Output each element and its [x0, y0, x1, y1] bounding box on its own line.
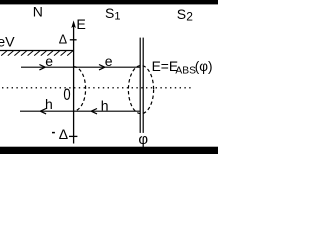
svg-text:2: 2 — [186, 10, 193, 24]
svg-text:e: e — [45, 53, 53, 69]
E = E_ABS(phi) label — [152, 59, 213, 77]
svg-text:eV: eV — [0, 35, 15, 51]
svg-text:S: S — [105, 5, 114, 21]
svg-text:E: E — [76, 17, 85, 33]
eV level line — [0, 50, 74, 52]
region label S1 — [105, 5, 121, 23]
svg-text:φ: φ — [138, 131, 148, 148]
svg-text:1: 1 — [114, 11, 120, 23]
Delta tick — [70, 39, 77, 41]
zero level dotted line — [2, 87, 193, 89]
minus Delta tick — [69, 135, 77, 137]
svg-text:N: N — [33, 4, 43, 20]
dashed Andreev arc at N/S1 interface — [74, 67, 86, 111]
svg-text:h: h — [45, 96, 53, 112]
svg-text:ABS: ABS — [175, 65, 196, 76]
svg-text:E=E: E=E — [152, 59, 178, 74]
barrier double line right — [142, 38, 144, 133]
E axis vertical line (N/S1 interface) — [73, 25, 75, 144]
dashed Andreev ellipse at S1/S2 barrier — [128, 66, 153, 114]
svg-text:Δ: Δ — [59, 126, 68, 142]
bottom border bar — [0, 147, 218, 154]
eV hatching — [1, 51, 73, 56]
e arrowhead S1 region — [99, 65, 105, 70]
electron line (e path) — [21, 66, 140, 68]
h arrowhead S1 region — [91, 109, 97, 114]
svg-text:S: S — [177, 6, 186, 22]
minus Delta label — [52, 126, 68, 142]
barrier double line left — [139, 38, 141, 133]
svg-text:0: 0 — [63, 87, 70, 105]
E axis arrowhead — [71, 20, 76, 28]
region label S2 — [177, 6, 193, 24]
svg-text:e: e — [105, 53, 113, 69]
e arrowhead N region — [39, 65, 45, 70]
hole line (h path) — [20, 110, 140, 112]
svg-text:Δ: Δ — [59, 32, 67, 46]
h arrowhead N region — [40, 109, 46, 114]
svg-text:(φ): (φ) — [195, 59, 213, 74]
top border bar — [0, 0, 218, 4]
svg-text:h: h — [101, 97, 109, 113]
